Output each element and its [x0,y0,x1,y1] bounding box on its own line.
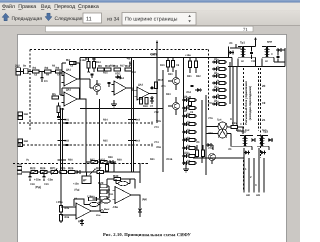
wire b1 link [80,78,90,80]
svg-text:ДА2: ДА2 [116,76,122,79]
wire feed F1 [231,58,233,67]
svg-text:|Пд|: |Пд| [74,189,79,192]
transistor VT9 [209,154,216,161]
svg-text:VT1: VT1 [161,85,166,88]
resistor R30 [114,177,121,180]
diode VD15 [110,160,113,164]
svg-text:VD: VD [228,148,232,151]
resistor R6 [57,106,60,113]
svg-text:R41: R41 [150,158,155,161]
svg-text:R9: R9 [98,64,102,68]
op-amp DA1.1 [64,72,77,86]
svg-text:ДА1: ДА1 [66,69,72,72]
resistor R9 [98,68,105,71]
capacitor C10 [89,197,97,201]
wire xfmr bottom bus [228,66,285,68]
svg-text:R27: R27 [96,166,102,170]
input attenuator box [24,69,29,74]
svg-text:Тр2: Тр2 [245,129,250,132]
op-amp DA3 [115,187,131,204]
gate row 15 [183,154,186,158]
svg-text:С: С [271,53,273,56]
wire da4 in [61,206,76,208]
op-amp DA2.1 [114,81,127,95]
transistor VT1 [94,85,101,92]
svg-text:R16: R16 [110,65,115,68]
power arrow +15V [156,41,158,58]
connector X2 stub [18,112,23,115]
wire gate bus 1 [229,62,231,104]
wire bus to A6 [60,172,62,202]
svg-text:+15в: +15в [185,54,191,57]
op-amp DA1.2 [64,92,77,106]
SIFU block dashed border right [208,50,210,111]
svg-text:R15: R15 [103,72,108,75]
resistor R26 [69,170,76,173]
capacitor C1 [41,72,43,78]
wire feed F2 [235,44,237,48]
lamp HL3 [102,199,110,203]
window title bar sliver [0,0,300,3]
capacitor bar C16 [128,119,137,121]
svg-text:VT4: VT4 [154,141,159,144]
wire t3 leads [250,135,253,137]
wire r7r8 [88,58,90,62]
svg-text:R4: R4 [66,58,70,62]
svg-text:VT6: VT6 [208,117,213,120]
svg-text:VD7: VD7 [100,159,105,162]
svg-text:19: 19 [262,101,266,105]
svg-text:R36: R36 [64,216,69,219]
wire rail V2 [162,70,164,172]
svg-text:R20: R20 [168,73,173,76]
svg-text:ДА4: ДА4 [78,220,84,223]
wire rail V1 [156,58,158,124]
gate row 12 [183,130,186,134]
svg-text:R22: R22 [196,75,201,78]
svg-text:Рис. 2.10. Принципиальная схем: Рис. 2.10. Принципиальная схема СИФУ [103,232,192,237]
capacitor C6 [250,51,253,53]
svg-text:R28: R28 [117,159,122,162]
svg-text:+15в: +15в [34,178,41,182]
resistor R7 [87,62,90,69]
wire V86 [85,99,87,172]
svg-text:ДА2: ДА2 [138,84,144,87]
svg-text:R31: R31 [109,193,114,196]
dashed link L3 [13,163,148,165]
gate row 3 [213,74,216,78]
svg-text:-15в: -15в [47,178,53,182]
SIFU block dashed border left [29,50,31,132]
diode VD6 [252,138,255,142]
diode VD5 [278,48,282,52]
transformer T5 [218,122,227,131]
wire t1 gnd [237,59,239,67]
capacitor bar C14 [58,140,67,142]
diode VD2 [150,98,154,101]
svg-text:VD: VD [196,141,200,144]
bus B1b [62,108,64,172]
resistor R18 [188,61,191,68]
svg-text:СИ2: СИ2 [64,140,70,143]
svg-text:R18: R18 [143,105,148,108]
tick C8 [66,121,69,123]
svg-text:С19: С19 [44,183,49,186]
capacitor C2 [90,73,93,75]
svg-text:Тр4: Тр4 [217,119,222,122]
svg-text:R23: R23 [166,93,171,96]
wire to A5 in [99,172,101,190]
potentiometer RP1 [51,170,58,173]
node chain junction [51,71,53,73]
svg-text:R26: R26 [68,159,73,162]
svg-text:Тр1: Тр1 [240,41,245,45]
svg-text:VD2: VD2 [131,71,136,74]
resistor R27c [101,160,108,163]
svg-text:Тр3: Тр3 [262,129,267,132]
toolbar: zoom combo [122,13,196,26]
svg-text:11: 11 [86,16,92,22]
svg-text:RP1: RP1 [50,166,56,170]
gate row 13 [183,138,186,142]
gate row 16 [183,161,186,165]
lamp HL2 [90,202,99,206]
svg-text:2Ш: 2Ш [15,64,20,68]
previous page bottom sliver [46,26,254,32]
diode VD12b [138,209,142,213]
svg-text:СлЗ: СлЗ [135,140,140,143]
toolbar: previous button arrow [2,13,9,21]
resistor R12 [125,68,132,71]
transistor VT3 [173,103,180,110]
toolbar [0,10,300,25]
svg-text:Вых: Вых [104,208,110,211]
resistor R23b [201,150,204,157]
resistor R10 [105,68,112,71]
arrow A1 [90,169,95,175]
resistor R17 [171,61,174,68]
gate row 5 [213,88,216,92]
svg-text:R: R [230,118,232,121]
power +B arrow [129,62,131,66]
bus B1a [60,108,62,172]
svg-text:R3: R3 [55,66,59,70]
svg-text:R14: R14 [96,61,101,64]
diode VD14 [261,151,264,155]
svg-text:VT2: VT2 [154,111,159,114]
resistor R27 [97,170,104,173]
svg-text:Предыдущая: Предыдущая [11,16,42,22]
svg-text:СИ1: СИ1 [64,119,70,122]
toolbar: next button arrow [45,13,52,21]
resistor R19 [194,61,197,68]
wire rnet [99,186,101,198]
wire box left edge [79,58,81,100]
capacitor C5 [190,84,193,86]
resistor R36 [59,215,62,222]
svg-text:С11: С11 [251,60,256,63]
svg-text:Ш3: Ш3 [256,194,261,197]
capacitor bar C15 [58,159,67,161]
svg-text:КПП: КПП [267,41,272,44]
svg-text:R24: R24 [40,166,46,170]
diode VD13 [245,151,248,155]
feedback resistor R4 [61,63,63,75]
gate row 11 [183,122,186,126]
svg-text:R25: R25 [103,140,108,143]
svg-text:VT8: VT8 [208,147,213,150]
wire feed T4 [236,67,238,132]
resistor R21 [231,125,238,128]
gate row 10 [183,114,186,118]
svg-text:1Ш: 1Ш [23,112,28,116]
bus B2a [131,58,133,173]
wire t5 in [206,126,218,128]
wire rail V3 [183,58,185,166]
transformer T3 [244,136,247,147]
capacitor bar C13 [58,119,67,121]
gate row 6 [213,95,216,99]
svg-text:+15в: +15в [80,59,86,62]
svg-text:VD6: VD6 [156,146,161,149]
svg-text:Д12: Д12 [184,152,189,155]
connector X3 stub [18,139,23,142]
diode VD4 [230,51,234,55]
svg-text:R21: R21 [187,75,192,78]
svg-text:Д11: Д11 [184,138,189,141]
svg-text:R25: R25 [60,166,66,170]
svg-text:71: 71 [243,27,248,33]
svg-text:VT5: VT5 [208,102,213,105]
wire da3 out [131,194,140,196]
svg-text:VD1: VD1 [115,72,121,76]
resistor R14 [145,98,148,105]
svg-text:R5: R5 [52,92,56,96]
svg-text:21: 21 [262,118,266,122]
svg-text:|Пд|: |Пд| [35,185,41,189]
svg-text:С: С [240,123,242,126]
svg-text:VD16: VD16 [166,158,173,161]
resistor R15 [154,82,157,89]
svg-text:R30: R30 [113,174,119,178]
wire mid row [86,161,116,163]
transistor VT2 [173,78,180,85]
resistor R23 [31,170,38,173]
wire t5 out2 [227,133,231,135]
op-amp DA2.2 [137,87,149,100]
svg-text:VD: VD [229,42,233,45]
svg-text:Усм: Усм [96,214,101,217]
resistor R1 [33,70,40,73]
svg-text:-15в: -15в [112,205,118,209]
SIFU block dashed border top [30,49,209,51]
svg-text:R19: R19 [160,64,165,67]
svg-text:R35: R35 [232,122,237,125]
wire t5 bottom bus [193,157,244,159]
resistor R28 [105,165,108,172]
resistor R8 [92,62,95,69]
feedback wire A2 [61,88,63,95]
wire A2 out [77,98,86,100]
transformer T1 [242,47,245,58]
svg-text:R26: R26 [68,166,74,170]
svg-text:С18: С18 [30,183,35,186]
svg-text:R23: R23 [30,166,36,170]
connector column dashed right [258,68,260,131]
svg-text:R24: R24 [103,119,108,122]
wire da4 out [91,210,100,212]
resistor R20 [188,99,191,106]
diode VD10 [77,170,81,174]
resistor R2 [45,70,52,73]
diode VD1 [117,75,121,79]
junction dots buses [60,122,62,124]
wire column pins [243,158,245,192]
svg-text:1Ш: 1Ш [23,139,28,143]
svg-text:VT3: VT3 [154,126,159,129]
capacitor bar C17 [128,140,137,142]
svg-text:Следующая: Следующая [54,16,82,22]
current sensor box [82,176,91,184]
gate row 4 [213,81,216,85]
toolbar: page entry [83,13,102,23]
svg-text:VT1: VT1 [96,83,101,86]
transformer T2 [266,47,269,58]
svg-text:R2: R2 [44,66,48,70]
svg-text:Ш2: Ш2 [246,194,251,197]
svg-text:R40: R40 [90,196,95,199]
resistor R24 [41,170,48,173]
diode VD7 [269,138,272,142]
gate row 7 [213,102,216,106]
wire net to rnet [139,164,141,184]
lamp HL1 [118,181,128,185]
tick C9 [66,143,69,145]
dashed link L2 [19,144,152,146]
svg-text:C1: C1 [44,79,48,83]
svg-text:R29: R29 [98,181,104,185]
capacitor C7 [276,55,279,57]
svg-text:+15в: +15в [56,200,63,204]
resistor R25 [60,170,67,173]
capacitor C18 [29,172,31,176]
svg-text:R35: R35 [64,207,69,210]
wire rail V4 [205,95,207,175]
resistor R22 [195,150,198,157]
wire a3a4 [127,87,133,89]
svg-text:(колодки-переходники): (колодки-переходники) [248,86,252,120]
svg-text:СИП: СИП [150,53,156,56]
power arrow pulse [255,38,257,45]
gate row 1 [213,60,216,64]
resistor R11 [114,68,121,71]
capacitor C4 [150,86,153,88]
dashed link L1 [19,122,152,124]
wire da4 output [100,212,108,214]
resistor R16 [166,61,169,68]
wire t2 leads [272,46,276,48]
diode VD12 [80,220,84,223]
resistor R33 [100,196,107,199]
wire H108 [80,108,163,110]
svg-text:ДА1: ДА1 [66,89,72,92]
wire input row [21,71,65,73]
diode VD3 [197,88,201,92]
svg-text:из 34: из 34 [107,16,119,22]
wire chain to A2 [59,72,61,96]
resistor R27b [91,160,98,163]
transformer T4 [261,136,264,147]
op-amp DA4 [76,203,91,219]
capacitor C3 [107,81,110,83]
menu bar [0,3,300,11]
svg-text:СлЗ: СлЗ [135,119,140,122]
svg-text:VD5: VD5 [156,120,161,123]
connector column dashed left [243,68,245,131]
svg-text:20: 20 [262,84,266,88]
svg-text:Д10: Д10 [184,124,189,127]
wire +15V rail [80,57,232,59]
gate row 2 [213,67,216,71]
svg-text:|Дд|: |Дд| [142,198,147,201]
resistor R13 [139,98,142,105]
svg-text:R17: R17 [120,65,125,68]
wire da3 fb [107,178,135,180]
wire t1 leads [248,46,255,48]
wire feed T3 [232,67,234,128]
wire bottom row [22,171,140,173]
svg-text:По ширине страницы: По ширине страницы [125,17,178,23]
capacitor C19 [43,172,45,176]
wire a4 out [149,93,157,95]
bus B2b [133,60,135,172]
wire V99 [99,99,101,172]
wire A1 out [77,78,80,80]
wire da4 fb [73,199,75,206]
svg-text:С12: С12 [236,129,241,132]
resistor R31 [100,190,107,193]
svg-text:ДТ: ДТ [83,178,87,182]
gate row 14 [183,146,186,150]
resistor R35 [59,206,62,213]
svg-text:R1: R1 [32,66,36,70]
svg-text:VD4: VD4 [186,91,191,94]
svg-text:1Ш: 1Ш [17,162,22,166]
gate row 8 [183,98,186,102]
connector X4 stub [17,167,22,170]
svg-text:R27: R27 [90,159,95,162]
svg-text:+15в: +15в [73,183,79,186]
svg-text:+В: +В [126,57,130,61]
resistor R3 [56,70,63,73]
current scanned page [18,35,287,242]
ground G1 [113,100,115,104]
diode VD8 [208,143,212,147]
connector X1 stub [16,68,21,71]
resistor R29 [100,184,107,187]
svg-text:R28: R28 [108,156,113,159]
resistor R5 [52,96,59,99]
wire gate bus 2 [201,100,203,163]
gate row 9 [183,106,186,110]
ground marks [183,168,189,170]
